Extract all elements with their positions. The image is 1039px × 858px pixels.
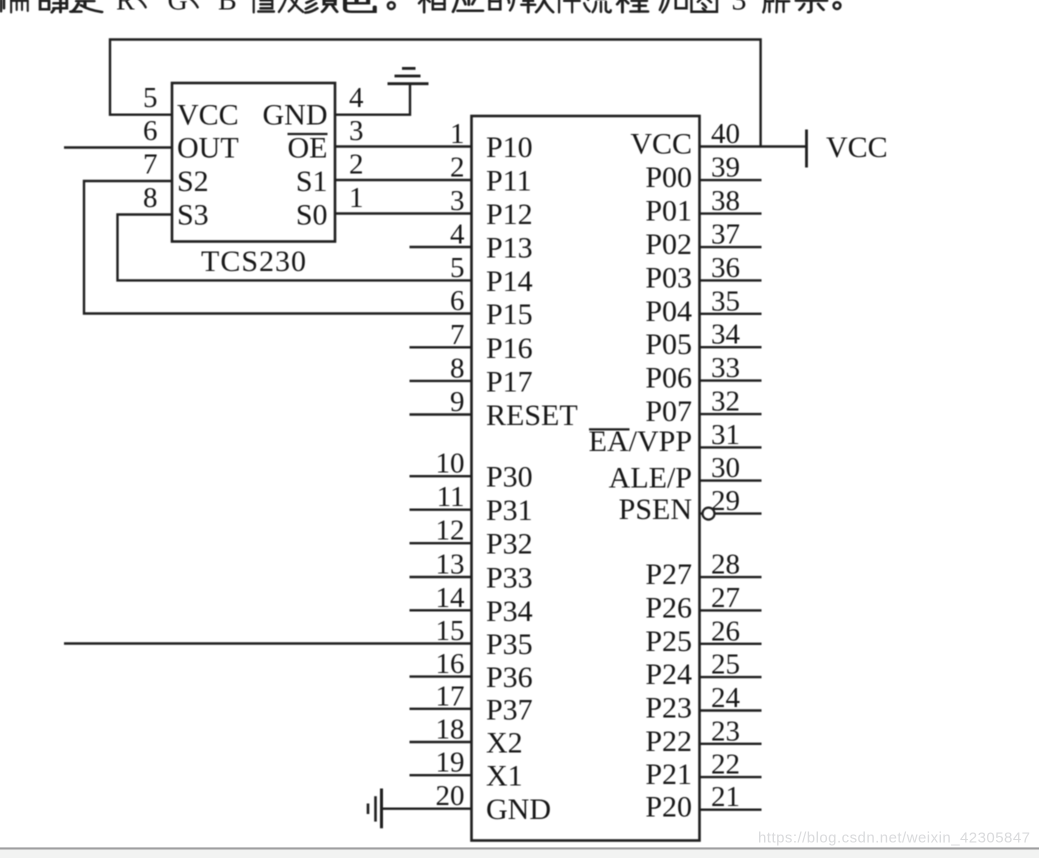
hanzi 色 [345, 0, 375, 12]
U2 pin 20 stub, number and label GND [436, 780, 552, 826]
U2 pin 7 stub, number and label P16 [410, 319, 533, 365]
svg-text:1: 1 [450, 118, 465, 150]
svg-text:P34: P34 [486, 595, 533, 628]
U2 pin 25 stub, number and label P24 [645, 649, 761, 692]
U2 pin 16 stub, number and label P36 [410, 648, 533, 694]
U2 pin 32 stub, number and label P07 [645, 386, 761, 429]
svg-text:P15: P15 [486, 298, 533, 331]
svg-text:P23: P23 [645, 692, 692, 725]
svg-text:P10: P10 [486, 131, 533, 164]
U1 pin 4 number and label GND [263, 82, 365, 132]
wire: MCU pin20 GND to earth symbol [383, 808, 472, 810]
U2 pin 36 stub, number and label P03 [645, 252, 761, 295]
svg-text:39: 39 [711, 152, 740, 184]
svg-text:P13: P13 [486, 232, 533, 265]
U2 pin 21 stub, number and label P20 [645, 781, 761, 824]
U1 pin 5 number and label VCC [143, 82, 239, 132]
wire: MCU pin15 P35 lead going off to the left [64, 642, 472, 644]
net label VCC [826, 131, 888, 164]
svg-text:5: 5 [143, 82, 158, 114]
svg-text:X1: X1 [486, 760, 523, 793]
svg-text:36: 36 [711, 252, 740, 284]
svg-text:P30: P30 [486, 461, 533, 494]
svg-text:33: 33 [711, 352, 740, 384]
svg-text:P33: P33 [486, 562, 533, 595]
svg-text:P36: P36 [486, 661, 533, 694]
value label TCS230 [201, 245, 306, 278]
svg-text:25: 25 [711, 649, 740, 681]
svg-text:P05: P05 [645, 328, 692, 361]
svg-text:P20: P20 [645, 791, 692, 824]
svg-text:P22: P22 [645, 725, 692, 758]
svg-text:40: 40 [711, 118, 740, 150]
U2 pin 27 stub, number and label P26 [645, 582, 761, 625]
U2 pin 39 stub, number and label P00 [645, 152, 761, 195]
svg-text:2: 2 [349, 149, 364, 181]
partial char at left edge [1, 0, 4, 11]
svg-text:S2: S2 [177, 165, 209, 198]
U2 pin 1 stub, number and label P10 [450, 118, 533, 164]
U1 pin 2 number and label S1 [296, 149, 364, 199]
svg-text:ALE/P: ALE/P [609, 462, 692, 495]
svg-text:31: 31 [711, 419, 740, 451]
wire: TCS230 pin6 OUT lead going off to the left [64, 146, 172, 148]
U2 pin 24 stub, number and label P23 [645, 682, 761, 725]
wire: TCS230 pin7 S2 to MCU pin6 P15 [84, 181, 472, 314]
top caption: Chinese sentence clipped at top of page [1, 0, 840, 17]
svg-text:P17: P17 [486, 365, 533, 398]
svg-text:P32: P32 [486, 528, 533, 561]
svg-text:GND: GND [486, 793, 551, 826]
svg-text:3: 3 [349, 115, 364, 147]
svg-text:P35: P35 [486, 628, 533, 661]
svg-text:34: 34 [711, 319, 741, 351]
wire: VCC net from TCS230 pin5 up over the top to MCU pin40 [110, 40, 761, 147]
U2 pin 15 stub, number and label P35 [436, 615, 533, 661]
svg-text:8: 8 [450, 352, 465, 384]
U2 pin 6 stub, number and label P15 [450, 285, 533, 331]
svg-text:21: 21 [711, 781, 740, 813]
svg-text:OE: OE [288, 132, 328, 165]
hanzi 程 [615, 0, 647, 12]
svg-text:P06: P06 [645, 362, 692, 395]
svg-text:P37: P37 [486, 693, 533, 726]
hanzi 件 [558, 0, 580, 12]
U1 pin 7 number and label S2 [143, 149, 209, 199]
dunhao 、 [137, 0, 145, 7]
svg-text:P26: P26 [645, 591, 692, 624]
wire: TCS230 pin8 S3 to MCU pin5 P14 [118, 215, 472, 281]
svg-text:13: 13 [436, 549, 465, 581]
svg-text:VCC: VCC [177, 99, 239, 132]
svg-text:8: 8 [143, 182, 158, 214]
svg-text:P01: P01 [645, 195, 692, 228]
svg-text:G: G [168, 0, 188, 17]
U1 pin 3 number and label OE [288, 115, 364, 165]
power symbol VCC (bar) [805, 130, 808, 168]
U2 pin 31 stub, number and label EA/VPP [589, 419, 762, 458]
svg-text:P04: P04 [645, 295, 692, 328]
svg-text:18: 18 [436, 714, 465, 746]
svg-text:S1: S1 [296, 165, 328, 198]
IC U2 MCU (8051) body [472, 116, 700, 841]
svg-text:TCS230: TCS230 [201, 245, 306, 278]
svg-text:35: 35 [711, 285, 740, 317]
U2 pin 4 stub, number and label P13 [410, 219, 533, 265]
ground symbol (earth, rotated) at MCU pin20 [368, 789, 382, 829]
svg-text:17: 17 [436, 680, 465, 712]
svg-text:P21: P21 [645, 758, 692, 791]
full stop 。 [834, 2, 841, 9]
svg-text:32: 32 [711, 386, 740, 418]
U1 pin 8 number and label S3 [143, 182, 209, 232]
hanzi 及 [279, 0, 303, 12]
U2 pin 17 stub, number and label P37 [410, 680, 533, 726]
wire: TCS230 pin3 OE to MCU pin1 P10 [335, 145, 472, 147]
svg-text:24: 24 [711, 682, 741, 714]
U2 pin 14 stub, number and label P34 [410, 582, 533, 628]
hanzi 值 [254, 0, 274, 12]
svg-text:B: B [218, 0, 237, 17]
U2 pin 33 stub, number and label P06 [645, 352, 761, 395]
svg-text:P25: P25 [645, 625, 692, 658]
svg-text:3: 3 [732, 0, 747, 17]
svg-text:4: 4 [349, 82, 364, 114]
hanzi 所 [763, 0, 789, 12]
svg-text:R: R [116, 0, 135, 17]
svg-text:23: 23 [711, 715, 740, 747]
full stop 。 [388, 2, 395, 9]
svg-text:VCC: VCC [826, 131, 888, 164]
hanzi 应 [453, 0, 483, 12]
svg-text:RESET: RESET [486, 399, 578, 432]
footer strip [0, 850, 1039, 858]
hanzi 确 [37, 0, 67, 12]
svg-text:6: 6 [450, 285, 465, 317]
svg-text:5: 5 [450, 252, 465, 284]
svg-text:28: 28 [711, 549, 740, 581]
svg-text:3: 3 [450, 185, 465, 217]
hanzi 而 [8, 0, 30, 12]
U2 pin 30 stub, number and label ALE/P [609, 452, 762, 495]
svg-text:P07: P07 [645, 395, 692, 428]
U2 pin 18 stub, number and label X2 [410, 714, 523, 760]
U2 pin 34 stub, number and label P05 [645, 319, 761, 362]
U2 pin 29 stub, number and label PSEN [619, 485, 762, 526]
hanzi 的 [489, 0, 514, 10]
svg-text:X2: X2 [486, 727, 523, 760]
U2 pin 13 stub, number and label P33 [410, 549, 533, 595]
hanzi 图 [691, 0, 716, 12]
ground symbol (earth) at top [388, 68, 429, 83]
svg-text:P00: P00 [645, 161, 692, 194]
svg-text:P02: P02 [645, 228, 692, 261]
svg-text:14: 14 [436, 582, 466, 614]
svg-text:P31: P31 [486, 494, 533, 527]
svg-text:P12: P12 [486, 198, 533, 231]
svg-text:10: 10 [436, 448, 465, 480]
svg-text:4: 4 [450, 219, 465, 251]
wire: TCS230 pin4 GND to earth symbol [335, 84, 410, 115]
svg-text:19: 19 [436, 747, 465, 779]
svg-text:12: 12 [436, 515, 465, 547]
U2 pin 3 stub, number and label P12 [450, 185, 533, 231]
svg-text:GND: GND [263, 99, 328, 132]
hanzi 定 [70, 0, 102, 12]
svg-text:P24: P24 [645, 658, 692, 691]
svg-text:P14: P14 [486, 265, 533, 298]
svg-text:P27: P27 [645, 558, 692, 591]
hanzi 相 [418, 0, 445, 12]
hanzi 如 [660, 0, 687, 12]
U2 pin 2 stub, number and label P11 [450, 152, 532, 198]
hanzi 软 [521, 0, 553, 12]
svg-text:27: 27 [711, 582, 740, 614]
svg-text:2: 2 [450, 152, 465, 184]
U2 pin 12 stub, number and label P32 [410, 515, 533, 561]
hanzi 示 [796, 0, 827, 12]
svg-text:9: 9 [450, 386, 465, 418]
U2 pin 8 stub, number and label P17 [410, 352, 533, 398]
svg-text:https://blog.csdn.net/weixin_4: https://blog.csdn.net/weixin_42305847 [758, 830, 1030, 847]
U2 pin 10 stub, number and label P30 [410, 448, 533, 494]
svg-text:11: 11 [437, 481, 465, 513]
svg-text:16: 16 [436, 648, 465, 680]
svg-text:37: 37 [711, 219, 740, 251]
svg-text:6: 6 [143, 115, 158, 147]
U2 pin 11 stub, number and label P31 [410, 481, 533, 527]
svg-text:VCC: VCC [630, 128, 692, 161]
svg-text:7: 7 [143, 149, 158, 181]
svg-text:PSEN: PSEN [619, 493, 692, 526]
U2 pin 22 stub, number and label P21 [645, 749, 761, 792]
wire: MCU pin40 stub out to VCC symbol [700, 145, 807, 147]
svg-text:P03: P03 [645, 261, 692, 294]
svg-text:P11: P11 [486, 165, 532, 198]
wire: TCS230 pin2 S1 to MCU pin2 P11 [335, 179, 472, 181]
U2 pin 28 stub, number and label P27 [645, 549, 761, 592]
U2 pin 19 stub, number and label X1 [410, 747, 523, 793]
U2 pin 38 stub, number and label P01 [645, 185, 761, 228]
svg-text:38: 38 [711, 185, 740, 217]
svg-text:S3: S3 [177, 199, 209, 232]
U2 pin 9 stub, number and label RESET [410, 386, 578, 432]
dunhao 、 [189, 0, 197, 7]
svg-text:7: 7 [450, 319, 465, 351]
svg-text:OUT: OUT [177, 132, 239, 165]
U1 pin 6 number and label OUT [143, 115, 239, 165]
U2 pin 37 stub, number and label P02 [645, 219, 761, 262]
watermark url [758, 830, 1030, 847]
U2 pin 5 stub, number and label P14 [450, 252, 533, 298]
svg-text:1: 1 [349, 182, 364, 214]
footer divider line [0, 847, 1039, 849]
U2 pin 26 stub, number and label P25 [645, 615, 761, 658]
svg-text:S0: S0 [296, 199, 328, 232]
svg-text:P16: P16 [486, 332, 533, 365]
svg-text:20: 20 [436, 780, 465, 812]
wire: TCS230 pin1 S0 to MCU pin3 P12 [335, 212, 472, 214]
svg-text:26: 26 [711, 615, 740, 647]
U1 pin 1 number and label S0 [296, 182, 364, 232]
U2 pin 35 stub, number and label P04 [645, 285, 761, 328]
hanzi 流 [584, 0, 610, 12]
hanzi 颜 [304, 0, 338, 13]
U2 pin 23 stub, number and label P22 [645, 715, 761, 758]
svg-text:15: 15 [436, 615, 465, 647]
svg-text:22: 22 [711, 749, 740, 781]
IC U1 TCS230 body [172, 83, 335, 242]
U2 pin 40 stub, number and label VCC [630, 118, 740, 161]
svg-text:30: 30 [711, 452, 740, 484]
